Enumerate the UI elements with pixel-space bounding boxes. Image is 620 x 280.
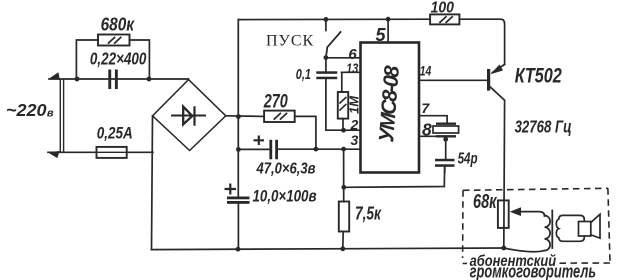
svg-text:47,0×6,3в: 47,0×6,3в bbox=[256, 161, 316, 178]
svg-text:13: 13 bbox=[346, 60, 358, 76]
svg-text:1М: 1М bbox=[347, 95, 362, 114]
svg-text:270: 270 bbox=[263, 92, 288, 113]
svg-text:0,22×400: 0,22×400 bbox=[90, 49, 147, 69]
svg-text:КТ502: КТ502 bbox=[515, 65, 562, 88]
svg-text:680к: 680к bbox=[101, 15, 135, 35]
svg-text:7: 7 bbox=[421, 100, 430, 116]
svg-text:ПУСК: ПУСК bbox=[266, 33, 314, 50]
svg-text:2: 2 bbox=[350, 117, 359, 133]
svg-text:в: в bbox=[47, 108, 54, 120]
svg-text:7,5к: 7,5к bbox=[355, 204, 382, 224]
svg-text:32768 Гц: 32768 Гц bbox=[515, 117, 572, 137]
svg-text:54р: 54р bbox=[458, 151, 478, 168]
svg-text:68к: 68к bbox=[473, 191, 497, 213]
svg-text:УМС8-08: УМС8-08 bbox=[375, 64, 404, 143]
svg-text:100: 100 bbox=[431, 0, 455, 16]
svg-text:8: 8 bbox=[422, 120, 432, 140]
svg-text:0,25А: 0,25А bbox=[97, 124, 133, 143]
svg-text:~220: ~220 bbox=[6, 100, 47, 120]
svg-text:10,0×100в: 10,0×100в bbox=[253, 187, 317, 206]
svg-text:3: 3 bbox=[351, 132, 359, 148]
svg-text:0,1: 0,1 bbox=[296, 66, 311, 83]
svg-text:14: 14 bbox=[420, 63, 432, 79]
svg-text:громкоговоритель: громкоговоритель bbox=[470, 262, 596, 280]
svg-text:5: 5 bbox=[376, 25, 387, 45]
